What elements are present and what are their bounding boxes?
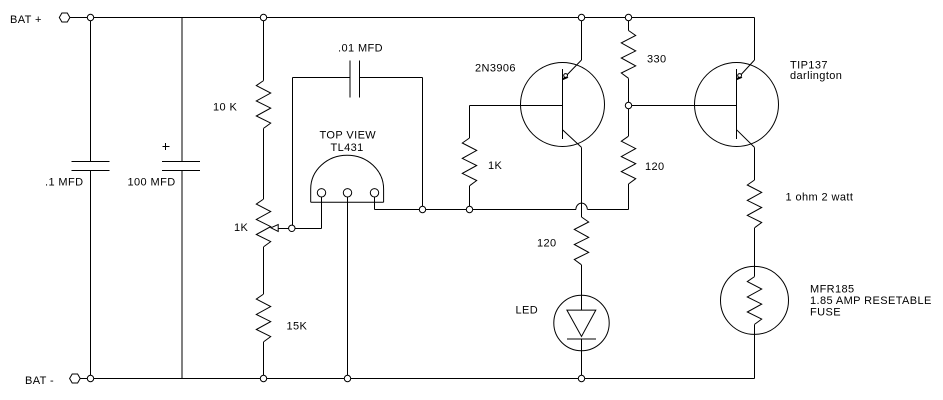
- svg-text:BAT +: BAT +: [10, 14, 42, 26]
- svg-text:10 K: 10 K: [213, 102, 237, 114]
- svg-text:.1 MFD: .1 MFD: [45, 177, 83, 189]
- svg-text:TOP VIEW: TOP VIEW: [320, 130, 377, 142]
- svg-text:120: 120: [537, 238, 557, 250]
- svg-text:1K: 1K: [234, 222, 249, 234]
- svg-text:MFR185: MFR185: [810, 284, 855, 296]
- svg-text:1.85 AMP RESETABLE: 1.85 AMP RESETABLE: [810, 295, 932, 307]
- svg-text:darlington: darlington: [790, 70, 842, 82]
- svg-text:1K: 1K: [488, 160, 503, 172]
- svg-text:FUSE: FUSE: [810, 307, 841, 319]
- svg-text:1 ohm 2 watt: 1 ohm 2 watt: [786, 192, 854, 204]
- svg-text:15K: 15K: [287, 321, 308, 333]
- svg-text:2N3906: 2N3906: [475, 63, 516, 75]
- svg-text:BAT -: BAT -: [25, 375, 54, 387]
- svg-text:330: 330: [647, 54, 667, 66]
- svg-text:LED: LED: [516, 305, 539, 317]
- svg-text:120: 120: [645, 161, 665, 173]
- svg-text:TL431: TL431: [331, 142, 364, 154]
- svg-text:100 MFD: 100 MFD: [128, 177, 176, 189]
- svg-text:.01 MFD: .01 MFD: [338, 43, 383, 55]
